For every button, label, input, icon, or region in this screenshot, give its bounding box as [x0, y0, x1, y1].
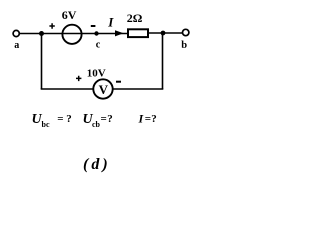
- svg-text:a: a: [14, 40, 19, 51]
- svg-text:bc: bc: [42, 120, 50, 129]
- wire 6V source to resistor: [82, 33, 128, 35]
- junction left: [39, 31, 44, 36]
- terminal a: [13, 30, 19, 36]
- svg-text:I: I: [107, 15, 114, 30]
- junction right: [161, 31, 166, 36]
- svg-text:6V: 6V: [62, 8, 77, 22]
- minus sign of 6V source: [91, 25, 96, 27]
- terminal b: [183, 29, 189, 35]
- current arrow: [115, 30, 124, 36]
- wire bottom left: [41, 88, 94, 90]
- svg-text:2Ω: 2Ω: [127, 11, 143, 25]
- svg-text:cb: cb: [92, 120, 101, 129]
- wire bottom right: [113, 88, 164, 90]
- svg-text:V: V: [99, 82, 109, 97]
- svg-text:(d): (d): [83, 156, 111, 173]
- minus sign of 10V source: [116, 81, 121, 83]
- svg-text:10V: 10V: [87, 67, 106, 79]
- wire left vertical: [41, 34, 43, 90]
- voltmeter source 10V: [93, 79, 112, 98]
- svg-text:?: ?: [151, 113, 157, 125]
- node c: [94, 31, 98, 35]
- svg-text:?: ?: [66, 113, 72, 125]
- plus sign of 10V source: [76, 76, 81, 81]
- plus sign of 6V source: [49, 23, 54, 28]
- svg-text:b: b: [181, 40, 187, 51]
- resistor R 2ohm: [128, 29, 148, 37]
- svg-text:?: ?: [107, 113, 113, 125]
- svg-text:I: I: [138, 112, 145, 126]
- wire resistor to terminal b: [148, 32, 183, 34]
- svg-text:c: c: [96, 39, 101, 50]
- svg-text:=: =: [145, 113, 151, 125]
- voltage source 6V: [62, 25, 81, 44]
- svg-text:=: =: [57, 113, 63, 125]
- wire a to 6V source: [20, 33, 63, 35]
- wire right vertical: [162, 33, 164, 89]
- svg-text:=: =: [101, 113, 107, 125]
